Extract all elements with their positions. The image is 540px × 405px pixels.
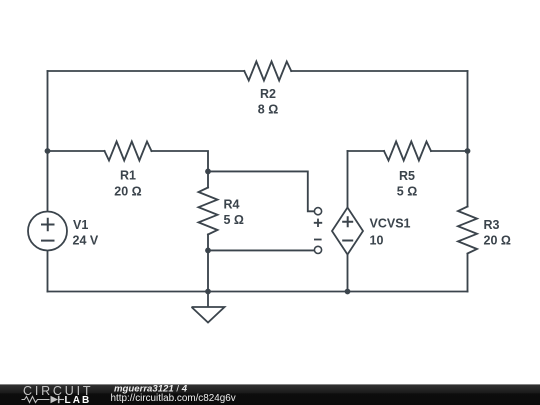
wire: node A to plus port xyxy=(208,171,314,211)
label R2 xyxy=(258,87,278,116)
label R4 xyxy=(224,197,244,227)
resistor R2 zigzag xyxy=(244,62,291,81)
svg-text:20 Ω: 20 Ω xyxy=(114,185,141,199)
svg-text:R1: R1 xyxy=(120,168,136,182)
dependent source VCVS1 diamond xyxy=(332,208,363,255)
svg-text:5 Ω: 5 Ω xyxy=(224,213,244,227)
svg-text:5 Ω: 5 Ω xyxy=(397,184,417,198)
junction dot at node B (208,250.4) xyxy=(205,248,211,254)
label R3 xyxy=(484,218,511,247)
wire: R5 row right lead xyxy=(431,150,468,152)
junction dot at R5/R3 node (467.5,151) xyxy=(465,148,471,154)
wire: top rail left of R2 xyxy=(48,70,245,72)
svg-text:http://circuitlab.com/c824g6v: http://circuitlab.com/c824g6v xyxy=(111,393,236,404)
resistor R4 zigzag xyxy=(199,188,218,235)
wire: R4 top lead xyxy=(207,171,209,187)
svg-text:R5: R5 xyxy=(399,169,415,183)
svg-text:10: 10 xyxy=(370,234,384,248)
V1 minus sign xyxy=(41,240,55,242)
wire: left rail top segment xyxy=(47,71,49,212)
svg-text:8 Ω: 8 Ω xyxy=(258,102,278,116)
port plus polarity mark xyxy=(314,219,322,227)
wire: VCVS1 bottom lead xyxy=(347,255,349,292)
wire: VCVS1 top lead xyxy=(347,151,349,208)
svg-text:LAB: LAB xyxy=(65,395,92,405)
logo diode symbol xyxy=(51,396,59,403)
port terminal minus circle xyxy=(314,246,321,253)
wire: R1 row right lead and drop to node xyxy=(152,151,209,171)
label R5 xyxy=(397,169,417,198)
wire: R4 bottom lead down to bottom rail xyxy=(207,235,209,292)
V1 plus sign xyxy=(41,218,55,231)
junction dot at ground node (208,291.5) xyxy=(205,289,211,295)
label R1 xyxy=(114,168,141,198)
wire: R5 row left lead xyxy=(348,150,385,152)
resistor R1 zigzag xyxy=(105,142,152,161)
VCVS1 plus sign xyxy=(342,216,353,227)
logo diode bar xyxy=(58,396,60,403)
ground symbol xyxy=(192,292,225,323)
svg-text:R4: R4 xyxy=(224,197,240,211)
label V1 xyxy=(73,218,99,248)
svg-text:VCVS1: VCVS1 xyxy=(370,216,411,230)
wire: node B to minus port xyxy=(208,249,314,251)
svg-text:24 V: 24 V xyxy=(73,234,99,248)
port terminal plus circle xyxy=(314,208,321,215)
wire: left rail bottom segment xyxy=(47,251,49,292)
wire: right rail top segment xyxy=(467,71,469,207)
junction dot at VCVS bottom (347.5,291.5) xyxy=(345,289,351,295)
svg-text:R2: R2 xyxy=(260,87,276,101)
wire: bottom rail xyxy=(48,291,468,293)
wire: top rail right of R2 xyxy=(291,70,467,72)
wire: R1 row left lead xyxy=(48,150,105,152)
svg-text:V1: V1 xyxy=(73,218,88,232)
svg-text:20 Ω: 20 Ω xyxy=(484,233,511,247)
junction dot at node (47.5,151) xyxy=(45,148,51,154)
junction dot at node A (208,171.4) xyxy=(205,169,211,175)
voltage source V1 circle xyxy=(28,212,67,251)
VCVS1 minus sign xyxy=(342,240,353,242)
logo resistor zigzag and diode xyxy=(22,397,65,403)
resistor R5 zigzag xyxy=(384,142,431,161)
resistor R3 zigzag xyxy=(458,207,477,254)
svg-text:R3: R3 xyxy=(484,218,500,232)
label VCVS1 xyxy=(370,216,411,247)
wire: right rail bottom segment xyxy=(467,255,469,292)
port minus polarity mark xyxy=(314,239,322,241)
